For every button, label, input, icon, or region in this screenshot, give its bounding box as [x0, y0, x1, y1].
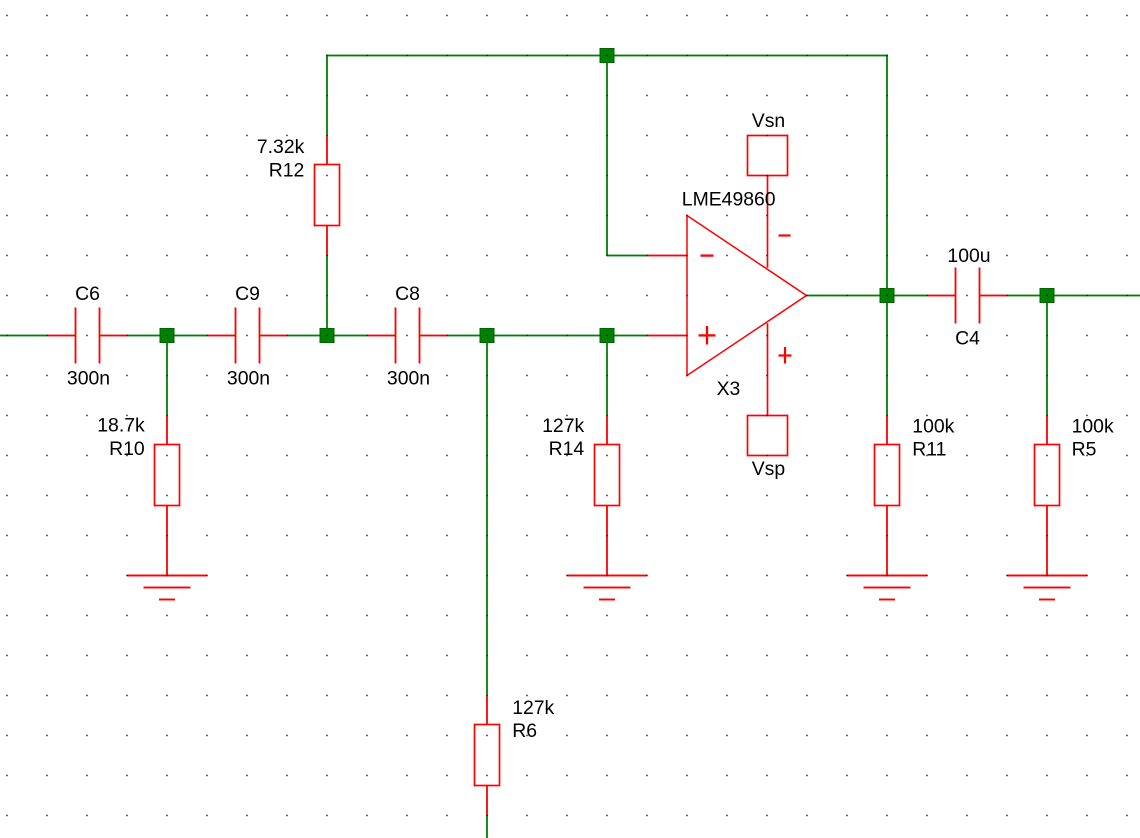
- op-amp supply pin plus label: [779, 347, 792, 364]
- wire C9 to node B: [288, 335, 328, 337]
- node D (+input/R14): [600, 329, 614, 343]
- wire op-amp output to node E / C4: [807, 295, 928, 297]
- node A (C6/C9/R10): [160, 329, 174, 343]
- wire node C to R6: [486, 336, 488, 696]
- op-amp inverting input lead: [648, 255, 688, 257]
- wire R12 upper vertical: [326, 56, 328, 136]
- wire inverting input horizontal: [607, 255, 648, 257]
- wire node A to C9: [167, 335, 208, 337]
- op-amp supply pin minus label: [779, 234, 791, 236]
- resistor R12: [315, 136, 340, 257]
- ground under R14: [567, 575, 647, 601]
- ground under R10: [127, 575, 207, 601]
- wire C4 to node F: [1008, 295, 1048, 297]
- op-amp non-inverting input plus symbol: [699, 326, 716, 345]
- resistor R11: [875, 416, 900, 577]
- node B (C9/C8/R12): [320, 329, 334, 343]
- op-amp inverting input minus symbol: [701, 254, 714, 256]
- ground under R11: [847, 575, 927, 601]
- node F (output/R11): [880, 289, 894, 303]
- resistor R6: [475, 696, 500, 817]
- capacitor C8: [368, 308, 448, 364]
- node E (feedback top): [600, 49, 614, 63]
- wire feedback top rail: [326, 55, 888, 57]
- node C (C8/R6): [480, 329, 494, 343]
- wire R6 bottom exit: [486, 816, 488, 838]
- op-amp positive supply pin bottom: [767, 323, 769, 415]
- power port Vsn box: [748, 136, 788, 176]
- node G (C4/R5/output): [1040, 289, 1054, 303]
- op-amp negative supply pin V+ top: [767, 176, 769, 268]
- wire feedback right vertical / node E to R11: [886, 55, 888, 416]
- wire node F to right edge: [1047, 295, 1140, 297]
- wire input left segment: [0, 335, 48, 337]
- wire node A to R10: [166, 336, 168, 416]
- wire C6 to node A: [128, 335, 168, 337]
- capacitor C6: [48, 308, 128, 364]
- resistor R14: [595, 416, 620, 577]
- wire node D to R14: [606, 336, 608, 416]
- capacitor C4: [928, 268, 1008, 324]
- op-amp U X3 triangle: [687, 216, 807, 376]
- power port Vsp box: [748, 416, 788, 456]
- wire node B to C8: [327, 335, 368, 337]
- wire node F to R5: [1046, 296, 1048, 416]
- wire R12 lower vertical: [326, 256, 328, 336]
- resistor R5: [1035, 416, 1060, 577]
- capacitor C9: [208, 308, 288, 364]
- ground under R5: [1007, 575, 1087, 601]
- wire C8 to node C / node D / op-amp +: [448, 335, 648, 337]
- wire node D drop to inverting input: [606, 56, 608, 256]
- op-amp non-inverting input lead: [648, 335, 688, 337]
- resistor R10: [155, 416, 180, 577]
